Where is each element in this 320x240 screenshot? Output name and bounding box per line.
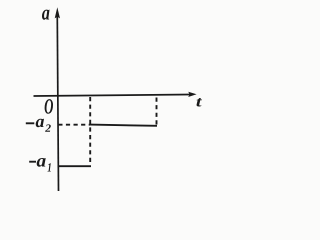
wire: solid segment at -a2 level — [90, 125, 157, 126]
wire: dashed horizontal at -a2 level — [58, 124, 90, 126]
wire: horizontal t-axis — [34, 95, 191, 97]
node: label -a1 subscript 1 — [47, 163, 50, 171]
node: label -a2 subscript 2 — [45, 124, 51, 131]
node: axis label t — [197, 98, 203, 107]
node: origin label O — [45, 99, 53, 114]
node: label -a2 minus — [26, 122, 35, 124]
paper background — [0, 0, 241, 191]
node: label -a1 letter a — [37, 158, 46, 167]
node: axis label a — [42, 10, 50, 20]
node: label -a2 letter a — [36, 119, 44, 128]
a-axis arrowhead — [55, 7, 60, 18]
t-axis arrowhead — [188, 92, 196, 97]
wire: dashed vertical at t2 — [156, 98, 158, 128]
wire: vertical a-axis — [57, 12, 58, 191]
wire: solid segment at -a1 level — [58, 165, 92, 167]
node: label -a1 minus — [29, 161, 36, 163]
wire: dashed vertical at t1 — [89, 97, 91, 165]
